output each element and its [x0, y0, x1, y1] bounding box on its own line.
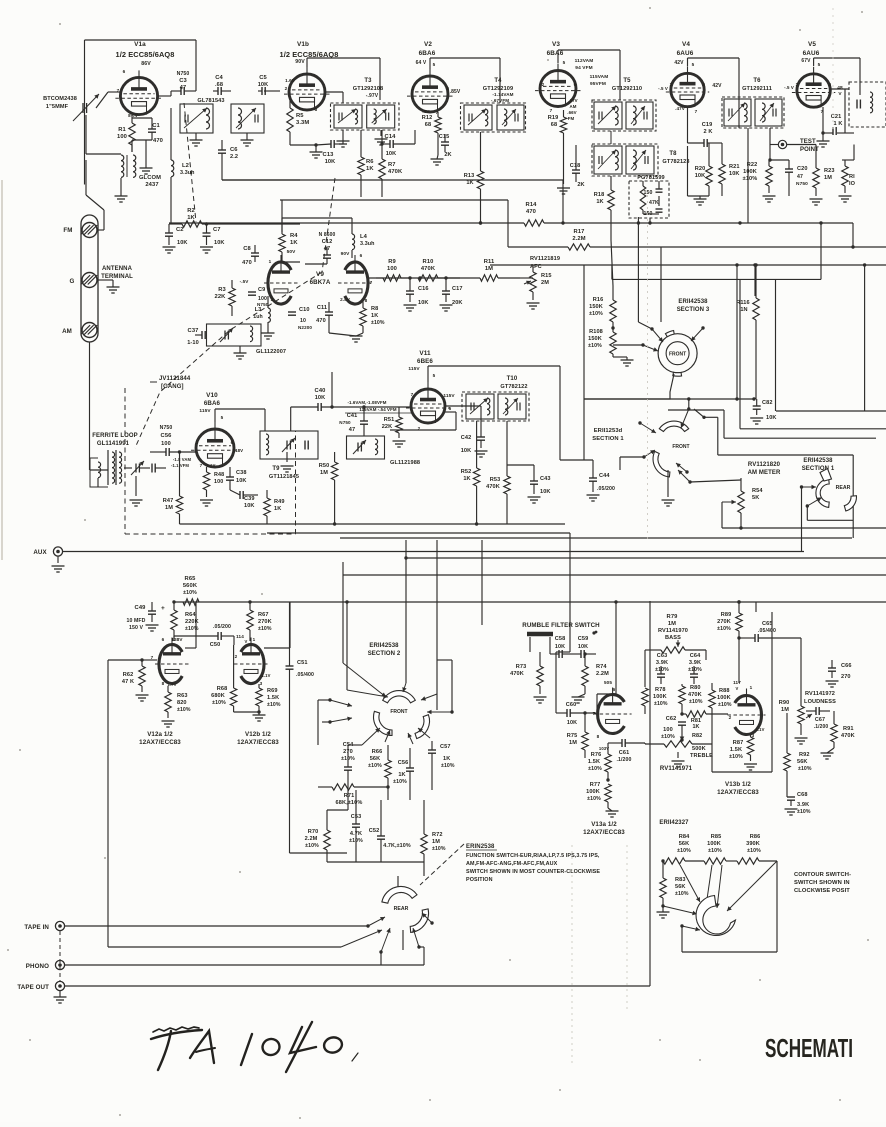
- svg-text:±10%: ±10%: [717, 626, 731, 632]
- svg-text:.66V: .66V: [567, 110, 576, 115]
- svg-text:-.5 V: -.5 V: [658, 86, 668, 91]
- svg-text:2: 2: [285, 86, 288, 91]
- svg-text:470K: 470K: [841, 733, 855, 739]
- svg-text:C59: C59: [578, 636, 589, 642]
- wire: [481, 540, 483, 625]
- svg-text:5: 5: [818, 62, 821, 67]
- svg-text:6: 6: [574, 82, 577, 87]
- capacitor C65: [754, 634, 756, 642]
- wire dashed gang: [124, 388, 126, 534]
- transformer GL1121988: [347, 436, 385, 459]
- svg-text:±10%: ±10%: [258, 626, 272, 632]
- ground: [475, 450, 488, 452]
- svg-text:5: 5: [692, 62, 695, 67]
- svg-text:560K: 560K: [183, 583, 198, 589]
- svg-text:3.9K: 3.9K: [656, 660, 668, 666]
- svg-text:C7: C7: [213, 227, 221, 233]
- resistor R50: [331, 462, 337, 480]
- svg-text:2M: 2M: [541, 280, 549, 286]
- svg-text:5: 5: [563, 60, 566, 65]
- svg-text:2: 2: [729, 715, 732, 720]
- svg-text:SECTION 2: SECTION 2: [368, 651, 401, 657]
- transformer T8: [592, 144, 658, 176]
- tube V13a: [598, 695, 625, 734]
- ground: [200, 246, 213, 248]
- svg-text:C49: C49: [135, 605, 147, 611]
- resistor R81: [686, 711, 706, 717]
- wire: [451, 660, 453, 712]
- scan artifacts: [647, 195, 649, 540]
- svg-text:7: 7: [550, 108, 553, 113]
- svg-text:56K: 56K: [675, 884, 686, 890]
- svg-text:C17: C17: [452, 286, 463, 292]
- svg-text:R75: R75: [567, 733, 578, 739]
- svg-text:1.5K: 1.5K: [730, 747, 742, 753]
- svg-text:±10%: ±10%: [675, 891, 689, 897]
- svg-text:1K: 1K: [290, 240, 298, 246]
- svg-text:AM METER: AM METER: [748, 470, 781, 476]
- svg-text:L4: L4: [360, 234, 368, 240]
- svg-text:6: 6: [613, 687, 616, 692]
- capacitor C44: [589, 477, 597, 479]
- svg-text:R87: R87: [733, 740, 744, 746]
- wire tape in: [65, 925, 368, 927]
- svg-text:V12a 1/2: V12a 1/2: [147, 731, 173, 738]
- svg-text:6BA6: 6BA6: [204, 400, 221, 407]
- svg-text:8: 8: [365, 298, 368, 303]
- svg-text:R10: R10: [423, 259, 434, 265]
- resistor R83: [660, 878, 666, 898]
- ground: [404, 304, 417, 306]
- svg-text:10K: 10K: [244, 503, 255, 509]
- svg-text:R15: R15: [541, 273, 552, 279]
- capacitor C57: [428, 749, 436, 751]
- capacitor C50: [217, 632, 219, 640]
- svg-text:6AU6: 6AU6: [677, 50, 694, 57]
- ground: [337, 140, 350, 142]
- svg-text:5: 5: [221, 415, 224, 420]
- tube V2: [412, 76, 448, 112]
- svg-text:505: 505: [604, 680, 612, 685]
- svg-text:R14: R14: [526, 202, 538, 208]
- svg-text:IO: IO: [849, 181, 856, 187]
- resistor R3: [229, 288, 235, 306]
- wire bus: [340, 537, 852, 539]
- wire: [281, 258, 283, 262]
- wire dashed: [420, 844, 464, 885]
- svg-text:1M: 1M: [432, 839, 440, 845]
- svg-text:56K: 56K: [679, 841, 690, 847]
- svg-text:56K: 56K: [370, 756, 381, 762]
- capacitor C42: [477, 436, 485, 438]
- switch REAR bottom: [382, 886, 417, 903]
- svg-text:±10%: ±10%: [305, 843, 319, 849]
- svg-text:±10%: ±10%: [368, 763, 382, 769]
- svg-text:GT1121845: GT1121845: [269, 474, 299, 480]
- svg-text:R82: R82: [692, 733, 702, 739]
- svg-text:C10: C10: [299, 307, 310, 313]
- svg-text:R12: R12: [422, 115, 433, 121]
- svg-text:R77: R77: [590, 782, 601, 788]
- svg-text:R4: R4: [290, 233, 298, 239]
- svg-text:TAPE IN: TAPE IN: [24, 924, 49, 931]
- svg-text:6BE6: 6BE6: [417, 358, 433, 365]
- svg-text:2: 2: [235, 654, 238, 659]
- wire: [264, 647, 290, 649]
- svg-text:90V: 90V: [295, 59, 305, 65]
- svg-text:T8: T8: [669, 151, 677, 157]
- svg-text:.6V: .6V: [422, 109, 430, 114]
- svg-text:C52: C52: [369, 828, 380, 834]
- svg-text:SWITCH SHOWN IN: SWITCH SHOWN IN: [794, 880, 850, 886]
- svg-text:R80: R80: [690, 685, 701, 691]
- svg-text:2: 2: [196, 440, 199, 445]
- svg-text:R49: R49: [274, 499, 285, 505]
- svg-text:115V: 115V: [443, 393, 455, 399]
- wire bus: [280, 199, 508, 201]
- wire: [687, 58, 689, 66]
- svg-text:12AX7/ECC83: 12AX7/ECC83: [583, 829, 625, 836]
- capacitor C2: [165, 232, 173, 234]
- tube V12b: [241, 645, 264, 684]
- resistor R65: [183, 599, 199, 605]
- svg-text:4.7K,±10%: 4.7K,±10%: [383, 843, 411, 849]
- potentiometer R54: [738, 491, 744, 513]
- svg-text:2.2M: 2.2M: [572, 236, 585, 242]
- svg-text:C37: C37: [188, 328, 199, 334]
- ground: [534, 696, 547, 698]
- svg-text:100K: 100K: [717, 695, 731, 701]
- test point: [778, 140, 786, 148]
- transformer T3 cells: [334, 105, 362, 128]
- svg-text:86V: 86V: [141, 61, 151, 67]
- ground: [694, 198, 707, 200]
- svg-text:C66: C66: [841, 663, 852, 669]
- svg-text:56K: 56K: [797, 759, 808, 765]
- ground: [253, 714, 266, 716]
- resistor R9: [383, 275, 401, 281]
- terminal G: [82, 273, 97, 288]
- svg-text:C64: C64: [690, 653, 701, 659]
- svg-text:ERII42538: ERII42538: [369, 643, 399, 649]
- svg-text:10K: 10K: [766, 415, 777, 421]
- ground: [826, 680, 839, 682]
- svg-text:R78: R78: [655, 687, 666, 693]
- svg-text:.47V: .47V: [675, 106, 686, 111]
- svg-text:470: 470: [526, 209, 536, 215]
- svg-text:TAPE OUT: TAPE OUT: [17, 984, 49, 991]
- svg-text:10K: 10K: [236, 478, 247, 484]
- svg-text:REAR: REAR: [394, 906, 409, 912]
- svg-text:470: 470: [242, 260, 252, 266]
- switch FRONT section3: [658, 334, 697, 373]
- transformer T10 cells: [466, 394, 494, 419]
- capacitor C38: [226, 476, 234, 478]
- svg-text:115VAM -.54 VFM: 115VAM -.54 VFM: [359, 407, 397, 412]
- coil GLCOM 2437: [121, 155, 124, 161]
- svg-text:.05/200: .05/200: [597, 486, 615, 492]
- svg-text:TERMINAL: TERMINAL: [101, 274, 133, 280]
- svg-text:1M: 1M: [165, 505, 173, 511]
- svg-text:CONTOUR SWITCH-: CONTOUR SWITCH-: [794, 872, 851, 878]
- capacitor C40: [317, 403, 319, 411]
- wire: [660, 247, 662, 322]
- svg-text:C58: C58: [555, 636, 566, 642]
- svg-text:REAR: REAR: [836, 485, 851, 491]
- switch s1 contacts: [640, 423, 656, 433]
- svg-text:N750: N750: [796, 181, 808, 187]
- svg-text:C51: C51: [297, 660, 308, 666]
- svg-text:±10%: ±10%: [729, 754, 743, 760]
- svg-text:1M: 1M: [320, 470, 328, 476]
- ground: [190, 139, 203, 141]
- svg-text:C16: C16: [418, 286, 429, 292]
- svg-text:1.1V: 1.1V: [206, 463, 215, 468]
- wire: [612, 278, 821, 280]
- svg-text:42V: 42V: [712, 83, 722, 89]
- svg-text:T10: T10: [507, 376, 518, 382]
- ground: [662, 499, 675, 501]
- switch contour arrows: [680, 865, 700, 902]
- resistor R16: [610, 300, 616, 322]
- capacitor C39: [239, 491, 241, 499]
- svg-text:1"5MMF: 1"5MMF: [46, 104, 69, 110]
- svg-text:1N: 1N: [740, 307, 747, 313]
- svg-text:1: 1: [750, 685, 753, 690]
- terminal TAPE OUT: [55, 981, 64, 990]
- svg-text:T4: T4: [494, 78, 502, 84]
- svg-text:RV1141970: RV1141970: [658, 628, 688, 634]
- capacitor C51: [286, 665, 294, 667]
- svg-text:6: 6: [829, 82, 832, 87]
- wire bus: [169, 222, 524, 224]
- svg-text:-.67VFM: -.67VFM: [491, 98, 509, 103]
- svg-text:470K: 470K: [510, 671, 524, 677]
- svg-text:C61: C61: [619, 750, 630, 756]
- svg-text:±10%: ±10%: [212, 700, 226, 706]
- switch rumble bar: [527, 632, 553, 637]
- svg-text:±10%: ±10%: [371, 320, 385, 326]
- terminal FM: [82, 223, 97, 238]
- svg-text:680K: 680K: [211, 693, 225, 699]
- resistor R85: [704, 858, 726, 864]
- svg-text:C82: C82: [762, 400, 773, 406]
- svg-text:.85V: .85V: [450, 89, 461, 95]
- svg-text:V13b 1/2: V13b 1/2: [725, 781, 751, 788]
- wire: [770, 144, 778, 146]
- svg-text:ERII1253d: ERII1253d: [594, 428, 623, 434]
- wire: [615, 602, 617, 694]
- svg-text:GL1141991: GL1141991: [97, 441, 130, 447]
- terminal TAPE IN: [55, 921, 64, 930]
- svg-text:3: 3: [271, 297, 274, 302]
- svg-text:AM,FM-AFC-ANG,FM-AFC,FM,AUX: AM,FM-AFC-ANG,FM-AFC,FM,AUX: [466, 861, 558, 867]
- svg-text:10K: 10K: [325, 159, 336, 165]
- resistor R68: [230, 688, 236, 706]
- svg-text:470K: 470K: [421, 266, 436, 272]
- wire: [406, 557, 886, 559]
- svg-text:N750: N750: [177, 71, 190, 77]
- svg-text:7: 7: [695, 109, 698, 114]
- svg-text:R48: R48: [214, 472, 224, 478]
- ground: [750, 417, 763, 419]
- svg-text:2.4V: 2.4V: [340, 297, 351, 302]
- resistor R86: [737, 858, 759, 864]
- capacitor C62: [678, 721, 686, 723]
- node antenna trimmer BTCOM2438: [82, 103, 84, 113]
- svg-text:1K: 1K: [371, 313, 378, 319]
- svg-text:R13: R13: [464, 173, 475, 179]
- resistor R52: [473, 468, 479, 486]
- resistor R6: [358, 157, 364, 175]
- svg-text:±10%: ±10%: [743, 176, 758, 182]
- svg-text:1K: 1K: [366, 166, 374, 172]
- svg-text:1-10: 1-10: [187, 340, 199, 346]
- svg-text:3.9K: 3.9K: [689, 660, 701, 666]
- switch contacts: [802, 486, 817, 488]
- transformer T10: [462, 392, 529, 421]
- capacitor C43: [530, 480, 538, 482]
- wire: [131, 140, 133, 152]
- svg-text:C18: C18: [570, 163, 581, 169]
- svg-text:100: 100: [387, 266, 397, 272]
- svg-text:R50: R50: [319, 463, 330, 469]
- svg-text:V4: V4: [682, 41, 690, 48]
- transformer GL781543 cell 1: [180, 104, 213, 133]
- capacitor C5: [261, 87, 263, 95]
- svg-text:C41: C41: [347, 413, 358, 419]
- svg-text:V13a 1/2: V13a 1/2: [591, 821, 617, 828]
- svg-text:50V: 50V: [287, 249, 297, 255]
- svg-text:1.1V: 1.1V: [261, 673, 270, 678]
- svg-text:270K: 270K: [258, 619, 272, 625]
- wire: [436, 548, 438, 710]
- capacitor C19: [703, 139, 705, 147]
- svg-text:470K: 470K: [388, 169, 403, 175]
- ground: [163, 246, 176, 248]
- wire: [620, 456, 644, 458]
- svg-text:C9: C9: [258, 287, 265, 293]
- svg-text:2.2: 2.2: [230, 154, 238, 160]
- svg-text:±10%: ±10%: [718, 702, 732, 708]
- svg-text:.05/400: .05/400: [296, 672, 314, 678]
- wire bus am: [335, 523, 565, 525]
- ground: [821, 752, 834, 754]
- ground: [234, 352, 247, 354]
- wire: [281, 218, 283, 234]
- inductor L4: [352, 234, 355, 239]
- svg-text:R85: R85: [711, 834, 722, 840]
- resistor R19: [560, 117, 566, 133]
- inductor L3: [268, 308, 270, 313]
- wire: [754, 265, 756, 296]
- resistor 47K: [640, 186, 646, 210]
- transformer T6: [722, 97, 784, 128]
- wire: [638, 322, 652, 329]
- svg-text:AFC: AFC: [530, 264, 542, 270]
- ground: [795, 737, 808, 739]
- svg-text:470K: 470K: [486, 484, 500, 490]
- svg-text:7: 7: [200, 463, 203, 468]
- svg-text:2 K: 2 K: [703, 129, 712, 135]
- svg-text:R73: R73: [516, 664, 527, 670]
- svg-text:1K: 1K: [466, 180, 473, 186]
- svg-text:C67: C67: [815, 717, 825, 723]
- svg-text:1: 1: [253, 637, 256, 642]
- wire contour box: [681, 926, 683, 952]
- svg-text:FRONT: FRONT: [669, 352, 686, 358]
- svg-text:150K: 150K: [589, 304, 603, 310]
- capacitor C61: [621, 739, 623, 747]
- svg-text:V1a: V1a: [134, 41, 146, 48]
- svg-text:V12b 1/2: V12b 1/2: [245, 731, 271, 738]
- svg-text:2: 2: [412, 86, 415, 91]
- transformer T6 cells: [724, 99, 751, 126]
- svg-text:RI: RI: [849, 174, 855, 180]
- svg-text:C1: C1: [152, 123, 160, 129]
- svg-text:C63: C63: [657, 653, 668, 659]
- svg-text:6: 6: [360, 253, 363, 258]
- svg-text:V10: V10: [206, 392, 218, 399]
- ground: [375, 138, 388, 140]
- svg-text:C21: C21: [831, 114, 842, 120]
- ground: [528, 496, 541, 498]
- wire: [813, 58, 815, 66]
- svg-text:8: 8: [162, 681, 165, 686]
- svg-text:R67: R67: [258, 612, 269, 618]
- resistor R13: [477, 171, 483, 189]
- svg-text:GT1292108: GT1292108: [353, 86, 383, 92]
- svg-text:±10%: ±10%: [708, 848, 722, 854]
- svg-text:R3: R3: [218, 287, 226, 293]
- svg-text:1K: 1K: [274, 506, 281, 512]
- tube V13b: [735, 695, 762, 734]
- svg-text:ERII42538: ERII42538: [678, 299, 708, 305]
- svg-text:470K: 470K: [688, 692, 702, 698]
- wire: [214, 409, 216, 422]
- svg-text:FM: FM: [568, 116, 575, 121]
- svg-text:7: 7: [593, 711, 596, 716]
- svg-text:10K: 10K: [258, 82, 269, 88]
- resistor R78: [642, 688, 648, 706]
- svg-text:68K,±10%: 68K,±10%: [336, 800, 363, 806]
- svg-text:GT1292111: GT1292111: [742, 86, 772, 92]
- transformer T7 (partial): [849, 82, 886, 127]
- svg-text:PG781599: PG781599: [637, 175, 665, 181]
- svg-text:R11: R11: [484, 259, 495, 265]
- svg-text:R52: R52: [461, 469, 472, 475]
- resistor R24: [842, 166, 848, 186]
- svg-text:10: 10: [300, 318, 306, 324]
- svg-text:100K: 100K: [743, 169, 757, 175]
- svg-text:-.97V: -.97V: [366, 93, 379, 99]
- svg-text:R17: R17: [574, 229, 585, 235]
- ground: [146, 624, 159, 626]
- svg-text:R20: R20: [695, 166, 706, 172]
- svg-text:±10%: ±10%: [798, 766, 812, 772]
- svg-text:1K: 1K: [443, 756, 450, 762]
- svg-text:R86: R86: [750, 834, 761, 840]
- svg-text:R66: R66: [372, 749, 383, 755]
- tube V11: [411, 389, 445, 423]
- svg-text:GT782122: GT782122: [500, 384, 527, 390]
- tube V1b: [289, 74, 325, 110]
- svg-text:-1.8 VAM: -1.8 VAM: [173, 457, 192, 462]
- svg-text:SECTION 3: SECTION 3: [677, 307, 710, 313]
- tube V9 left half: [268, 262, 291, 304]
- svg-text:1.5K: 1.5K: [588, 759, 600, 765]
- capacitor C56b: [406, 767, 414, 769]
